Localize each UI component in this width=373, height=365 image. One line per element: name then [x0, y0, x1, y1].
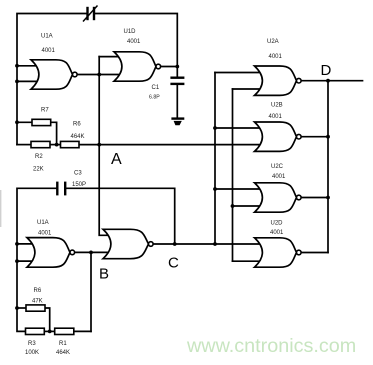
svg-text:www.cntronics.com: www.cntronics.com	[186, 335, 356, 357]
svg-text:4001: 4001	[270, 230, 284, 236]
svg-text:R2: R2	[35, 154, 43, 160]
svg-text:U2A: U2A	[267, 39, 279, 45]
svg-text:464K: 464K	[71, 134, 85, 140]
svg-text:C3: C3	[74, 170, 82, 176]
svg-text:R1: R1	[59, 341, 67, 347]
svg-text:B: B	[99, 266, 109, 283]
svg-text:4001: 4001	[38, 231, 52, 237]
svg-text:R3: R3	[28, 341, 36, 347]
svg-text:U2C: U2C	[271, 164, 284, 170]
svg-text:4001: 4001	[269, 54, 283, 60]
svg-text:4001: 4001	[272, 174, 286, 180]
svg-text:A: A	[111, 151, 122, 168]
svg-text:U1D: U1D	[124, 29, 137, 35]
svg-text:47K: 47K	[32, 298, 43, 304]
svg-text:6.8P: 6.8P	[149, 95, 160, 101]
svg-text:4001: 4001	[42, 48, 56, 54]
svg-text:U2B: U2B	[271, 102, 283, 108]
svg-text:D: D	[321, 62, 332, 79]
svg-text:U1A: U1A	[41, 33, 53, 39]
svg-text:22K: 22K	[33, 167, 44, 173]
svg-text:C1: C1	[152, 85, 160, 91]
svg-text:R6: R6	[73, 121, 81, 127]
svg-text:100K: 100K	[25, 350, 39, 356]
svg-text:R6: R6	[34, 288, 42, 294]
svg-text:150P: 150P	[72, 182, 86, 188]
svg-text:C: C	[168, 255, 179, 272]
svg-text:4001: 4001	[127, 39, 141, 45]
svg-text:R7: R7	[41, 107, 49, 113]
svg-text:464K: 464K	[56, 350, 70, 356]
svg-text:U1A: U1A	[37, 220, 49, 226]
svg-text:U2D: U2D	[271, 221, 284, 227]
svg-text:4001: 4001	[269, 114, 283, 120]
